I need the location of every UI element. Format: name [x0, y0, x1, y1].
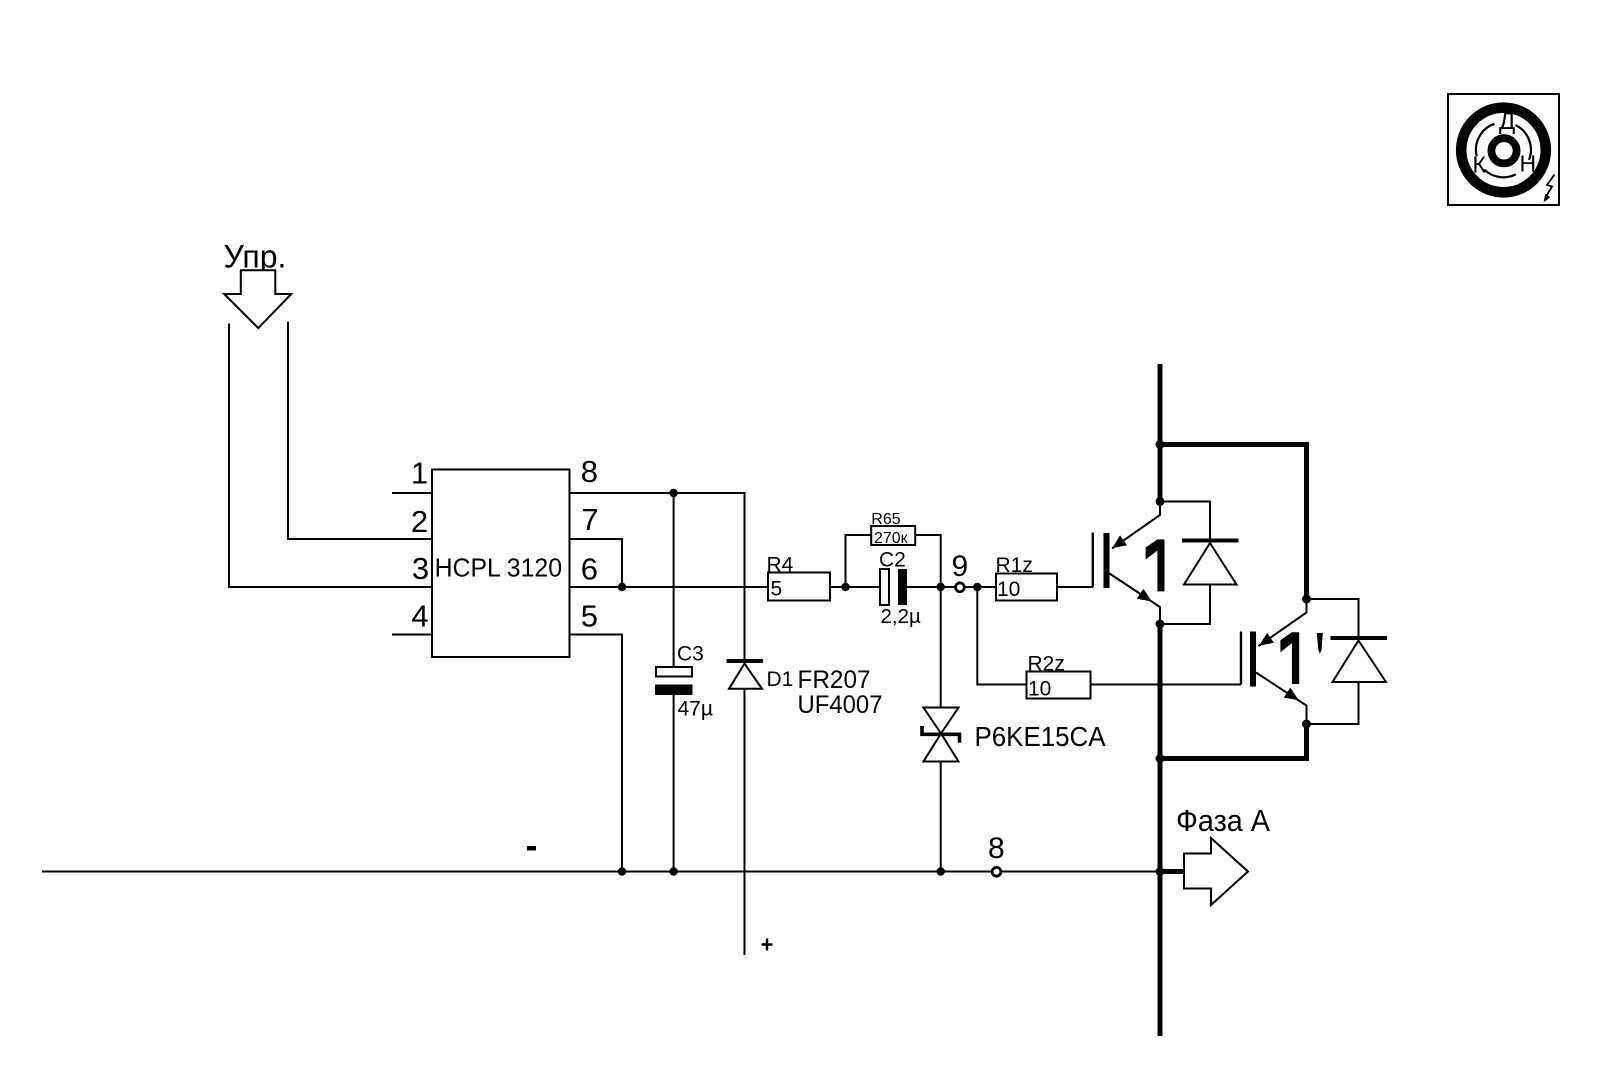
- IGBT 1 emitter lead: [1110, 574, 1161, 625]
- logo inner arc bottom (between К and Н): [1484, 170, 1516, 178]
- svg-text:Фаза А: Фаза А: [1176, 803, 1270, 838]
- svg-text:C3: C3: [677, 643, 704, 666]
- svg-text:Н: Н: [1520, 151, 1537, 177]
- svg-text:HCPL 3120: HCPL 3120: [435, 553, 562, 583]
- resistor R4 body: [768, 573, 830, 601]
- diode D1 triangle: [729, 664, 762, 689]
- svg-text:Упр.: Упр.: [224, 239, 287, 275]
- svg-text:2,2µ: 2,2µ: [881, 605, 921, 628]
- IGBT 1' emitter lead: [1256, 673, 1307, 725]
- freewheel diode of 1: bottom link: [1160, 585, 1210, 625]
- IGBT 1 collector arrowhead: [1112, 535, 1127, 548]
- capacitor C3 bottom plate: [655, 685, 693, 696]
- IGBT 1' designator "1": [1280, 632, 1299, 684]
- minus label: [527, 846, 536, 851]
- wire TVS branch lower: [940, 762, 942, 872]
- wire R65 branch right riser: [915, 535, 941, 587]
- freewheel diode of 1': cathode bar: [1331, 636, 1388, 640]
- wire R1z to gate of 1: [1057, 586, 1093, 588]
- svg-text:8: 8: [988, 832, 1005, 865]
- IGBT 1' gate bar: [1240, 632, 1242, 685]
- resistor R1z body: [996, 574, 1057, 601]
- wire R4 to C2: [830, 586, 880, 588]
- freewheel diode of 1: top link: [1160, 502, 1210, 539]
- freewheel diode of 1': bottom link: [1307, 682, 1359, 724]
- IGBT 1' collector lead: [1259, 599, 1307, 646]
- svg-text:UF4007: UF4007: [798, 691, 883, 719]
- svg-text:7: 7: [581, 502, 598, 537]
- pin 1 stub: [392, 492, 432, 494]
- diode D1 cathode bar: [727, 659, 764, 663]
- junction C3 top at pin8 line: [669, 489, 677, 497]
- svg-text:4: 4: [411, 599, 428, 634]
- wire R65 branch left riser: [846, 535, 872, 587]
- IGBT 1 designator "1": [1146, 539, 1165, 591]
- wire D1 branch upper: [744, 493, 746, 659]
- resistor R65 body: [871, 526, 915, 545]
- wire pin 7 jumper to pin 6 net: [570, 539, 623, 587]
- svg-text:1: 1: [411, 455, 428, 490]
- TVS P6KE15CA Z-bar: [922, 726, 960, 743]
- IGBT 1' emitter arrowhead: [1284, 688, 1299, 701]
- svg-text:3: 3: [412, 551, 429, 586]
- IGBT 1' emitter junction: [1302, 720, 1311, 729]
- wire C3 branch lower: [673, 695, 675, 872]
- svg-text:47µ: 47µ: [678, 698, 713, 721]
- wire pin 5 down to minus rail: [570, 635, 623, 872]
- IGBT 1 collector junction: [1156, 497, 1165, 506]
- logo lightning bolt: [1546, 175, 1555, 198]
- svg-text:5: 5: [771, 578, 783, 601]
- svg-text:270к: 270к: [874, 530, 909, 547]
- logo frame: [1448, 94, 1559, 205]
- svg-text:2: 2: [411, 504, 428, 539]
- junction R65 right / TVS branch: [937, 583, 945, 591]
- wire pin 6 gate line to R4: [570, 586, 769, 588]
- IGBT 1' designator apostrophe: [1317, 633, 1323, 654]
- Упр. input arrow (hollow, pointing down): [224, 270, 291, 328]
- junction bus / minus rail: [1156, 867, 1165, 876]
- logo outer ring: [1461, 108, 1546, 193]
- capacitor C3 top plate: [656, 667, 692, 677]
- freewheel diode of 1: cathode bar: [1182, 539, 1239, 543]
- node 8 terminal circle: [992, 867, 1001, 876]
- svg-text:5: 5: [581, 599, 598, 634]
- svg-text:Д: Д: [1499, 108, 1515, 135]
- wire C2 to node 9: [907, 586, 955, 588]
- svg-text:6: 6: [581, 552, 598, 587]
- junction R65 left branch: [841, 583, 849, 591]
- svg-text:8: 8: [581, 454, 598, 489]
- logo center donut: [1491, 138, 1516, 163]
- capacitor C2 right plate: [898, 569, 907, 605]
- freewheel diode of 1': top link: [1307, 599, 1359, 636]
- minus rail wire: [42, 871, 1159, 873]
- IGBT 1 emitter arrowhead: [1137, 589, 1152, 602]
- svg-text:D1: D1: [767, 668, 794, 691]
- svg-text:10: 10: [997, 578, 1020, 601]
- wire Упр. right lead to pin 2: [288, 322, 432, 539]
- node 9 terminal circle: [956, 583, 965, 592]
- IGBT 1 collector lead: [1112, 502, 1160, 549]
- TVS P6KE15CA upper triangle: [924, 708, 959, 734]
- logo inner arc right (between Д and Н): [1516, 125, 1531, 160]
- TVS P6KE15CA lower triangle: [924, 734, 959, 762]
- IGBT 1 body bar: [1104, 533, 1110, 588]
- logo lightning arrowhead: [1544, 194, 1551, 203]
- wire R2z to gate of 1': [1091, 684, 1242, 686]
- wire TVS branch upper: [940, 587, 942, 708]
- svg-text:9: 9: [952, 550, 969, 583]
- svg-text:P6KE15CA: P6KE15CA: [975, 721, 1106, 752]
- svg-text:FR207: FR207: [798, 666, 871, 694]
- junction TVS at rail: [937, 867, 945, 875]
- resistor R2z body: [1027, 672, 1091, 699]
- junction pin5 at rail: [618, 867, 626, 875]
- svg-text:10: 10: [1028, 678, 1051, 701]
- wire D1 anode down to plus terminal: [744, 689, 746, 955]
- Фаза А arrow stub: [1160, 869, 1184, 874]
- Фаза А output arrow (hollow, pointing right): [1184, 838, 1248, 905]
- junction pin6/pin7: [618, 583, 626, 591]
- wire Упр. left lead to pin 3: [229, 324, 432, 588]
- freewheel diode of 1: triangle: [1184, 543, 1237, 585]
- freewheel diode of 1': triangle: [1333, 641, 1387, 683]
- wire C3 branch upper: [673, 493, 675, 667]
- phase bus thick vertical lower: [1158, 624, 1163, 1036]
- thick branch from emitter of 1': [1160, 724, 1307, 759]
- wire R2z branch riser: [977, 587, 1026, 685]
- IGBT 1 emitter junction: [1156, 620, 1165, 629]
- IGBT 1' body bar: [1250, 632, 1256, 687]
- plus terminal label: [762, 939, 773, 951]
- logo inner arc left (between К and Д): [1476, 124, 1495, 157]
- optocoupler U1 HCPL 3120 body: [432, 470, 570, 658]
- svg-text:К: К: [1473, 152, 1487, 178]
- wire pin 8 supply line: [570, 492, 746, 494]
- IGBT 1' collector junction: [1302, 595, 1311, 604]
- pin 4 stub: [392, 634, 432, 636]
- phase bus thick vertical upper: [1158, 364, 1163, 502]
- junction R2z branch: [973, 583, 981, 591]
- thick branch to collector of 1': [1160, 445, 1307, 600]
- IGBT 1 gate bar: [1092, 533, 1094, 588]
- junction bus / branch bottom: [1156, 754, 1165, 763]
- junction C3 bottom at rail: [669, 867, 677, 875]
- capacitor C2 left plate: [880, 569, 889, 605]
- wire node 9 to R1z: [965, 586, 996, 588]
- junction bus / branch top: [1156, 440, 1165, 449]
- IGBT 1' collector arrowhead: [1259, 633, 1274, 646]
